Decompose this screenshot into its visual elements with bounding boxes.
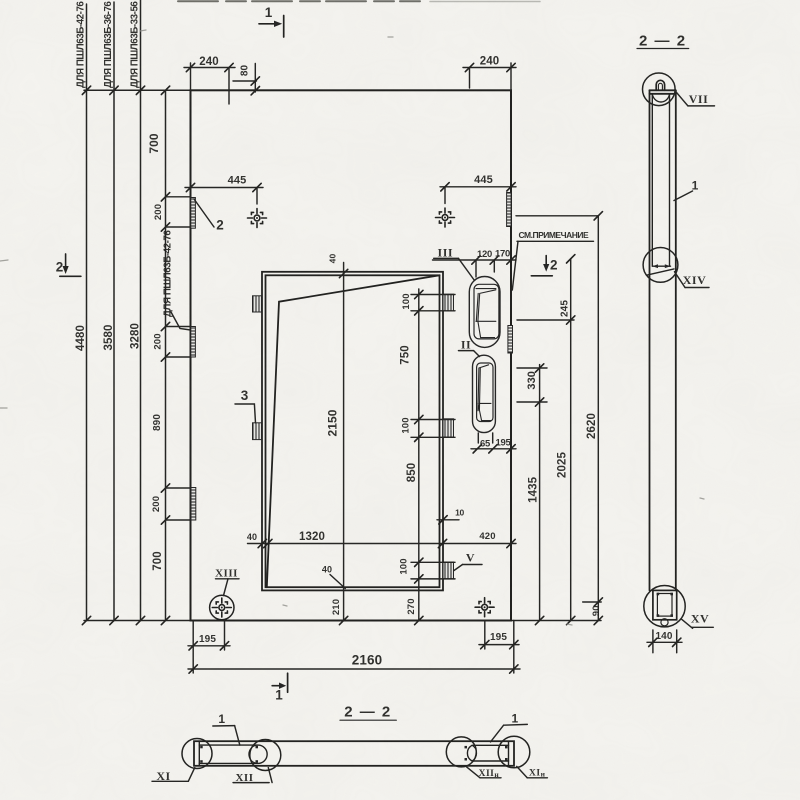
dim 140 under XV [647,630,682,653]
brackets from column4 to left edge plates [166,197,191,520]
oval vent hole 1 [469,277,500,348]
plate on panel left edge lower [191,488,196,521]
plate on opening right edge middle [443,419,454,437]
dim 120 / 170 above ovals [433,260,517,277]
lifting anchor upper-right [436,208,455,227]
dim 65 / 195 below oval 2 [471,433,516,449]
bottom overall dim 2160 [188,668,520,670]
lifting anchor upper-left [248,209,267,228]
door leaf: sloped top and slanted left edge [267,275,440,587]
right dim column 330/1435 [517,365,547,621]
right end cap detail [467,741,508,766]
section marker 2 right [531,256,552,276]
center vertical dim line 40/2150/210 [343,263,345,621]
section marker 1 bottom [272,673,287,692]
detail circle top (VII) [643,73,676,106]
opening outer rectangle [262,272,443,591]
detail circle XIII with anchor bottom-left [210,595,234,619]
dim 10 at opening right edge [437,519,459,521]
vertical chain dim inside opening (100/750/100/850/100/270) [411,289,455,621]
plate on opening left edge lower [253,423,262,440]
plate on opening right edge upper [443,294,454,311]
end detail XV at column bottom [644,586,685,627]
lifting loop on top [656,80,664,90]
ticks where bottom edge crosses left columns [82,616,90,624]
plate on panel left edge middle [191,327,196,358]
dim 240 left: line [184,67,235,69]
bar outline [194,741,514,766]
dim 240 right: line [463,67,516,69]
dim 445 right [440,187,516,204]
detail circle XII [250,740,281,771]
plate on panel right edge middle [508,326,513,354]
bottom dim 195 left [188,621,230,674]
left extension line col 2 (3580) [113,2,115,621]
column outline [650,90,676,590]
rebar corner dots [657,593,673,617]
detail circle XIIn (right inner) [446,737,476,767]
oval vent hole 2 [473,355,496,432]
left extension line col 4 (chain 700/200/890) [165,90,167,620]
section marker 1 top [259,16,284,38]
left extension line col 3 (3280) [140,0,142,621]
ticks where top edge crosses left columns [82,86,90,94]
opening inner rectangle [266,275,440,587]
top edge extension to left columns [84,89,191,91]
detail circle XIV [643,248,678,283]
left column 4 chain ticks [161,193,169,201]
plate on opening right edge lower (V) [443,562,454,579]
detail circle XI (left end) [182,739,212,769]
section marker 2 left [60,254,81,276]
right dim column 2620/90 [516,216,601,621]
right dim column 245/2025 [517,259,574,621]
left extension line col 1 (4480) [86,4,88,621]
dim 80: reference line and vertical [233,80,257,82]
scan streak top [178,0,420,2]
plate on opening left edge upper [191,193,513,579]
detail circle XIn (right end) [498,736,530,768]
bottom width chain 40/1320/420 [248,543,517,545]
plate on panel right edge upper [507,193,512,227]
main panel outline [191,90,512,620]
loop anchor bowl inside top [652,95,669,103]
plate on panel left edge upper (2) [191,198,196,229]
bottom dim 195 right [479,621,519,674]
cavity bottom line with arrows [647,266,675,275]
leader and label 2 for upper left plate [194,199,214,227]
lifting anchor bottom-right [475,598,494,617]
bottom edge extension line full width [84,620,601,622]
left end cap detail [199,741,267,766]
dim 445 left [185,188,263,205]
inner cavity lines [652,94,669,266]
